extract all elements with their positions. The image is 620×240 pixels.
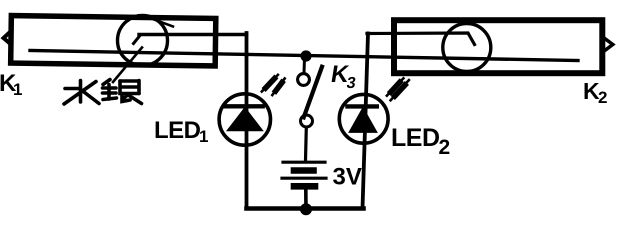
K2 tube right sealed tip [605, 39, 613, 51]
svg-text:3V: 3V [333, 164, 362, 191]
svg-text:LED: LED [154, 117, 201, 144]
LED1 body circle [219, 94, 270, 145]
label K1 [0, 70, 22, 99]
wire: bottom return [247, 206, 364, 211]
svg-text:2: 2 [439, 136, 451, 159]
battery plate long [282, 177, 326, 180]
LED2 emission arrow b [391, 80, 409, 100]
switch K3 blade [304, 67, 322, 118]
LED2 triangle [349, 108, 377, 133]
node: junction dot main wire to K3 [300, 50, 311, 61]
svg-text:LED: LED [391, 124, 440, 152]
label LED2 [391, 124, 450, 159]
LED2 emission arrow a [387, 78, 404, 95]
wire: K3 bottom contact to battery [304, 128, 308, 161]
svg-text:3: 3 [345, 74, 357, 92]
svg-text:1: 1 [199, 127, 208, 146]
LED1 triangle [227, 108, 263, 131]
stray stroke under K1 top edge [154, 20, 173, 27]
wire: dot to K3 top contact [303, 58, 307, 73]
battery B1 plate long top [283, 161, 325, 164]
node: bottom junction dot [300, 203, 312, 215]
battery plate short thick bottom [294, 183, 315, 190]
mercury switch K1 tube body [11, 16, 216, 66]
wire: K1 short electrode to LED1 corner [139, 33, 247, 36]
LED2 body circle [339, 94, 388, 143]
K1 tube left sealed tip [4, 32, 11, 44]
label LED1 [154, 117, 208, 146]
label K2 [583, 78, 607, 107]
K2 mercury blob circle [443, 24, 491, 72]
K1 mercury blob circle [118, 16, 168, 66]
label 3V [333, 164, 362, 191]
switch K3 bottom contact [301, 115, 313, 127]
wire: vertical branch to LED1 [245, 33, 249, 209]
K1 long electrode / main wire to K2 [30, 51, 578, 61]
wire: LED2 branch top to K2 short electrode [367, 33, 475, 45]
wire: vertical branch to LED2 [363, 34, 369, 209]
battery plate short thick [294, 167, 314, 174]
K1 short electrode hook tip [134, 36, 141, 44]
mercury switch K2 tube body [394, 20, 602, 73]
svg-text:2: 2 [598, 88, 607, 107]
wire: battery to bottom node [304, 190, 308, 210]
label 水银 (mercury), drawn strokes [64, 80, 142, 105]
svg-text:1: 1 [13, 80, 22, 99]
switch K3 top contact [298, 74, 310, 86]
leader line from 水银 to mercury blob [113, 48, 142, 83]
label K3 [328, 61, 359, 92]
LED1 emission arrow a [262, 75, 278, 92]
LED2 cathode bar [348, 104, 377, 108]
LED1 emission arrow b [272, 79, 284, 96]
LED1 cathode bar [225, 104, 262, 108]
